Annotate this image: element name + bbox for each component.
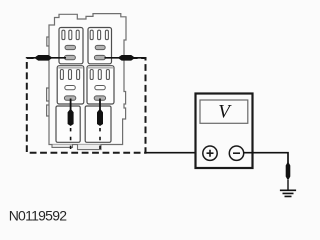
cavity mid-right [87, 66, 114, 104]
left test probe [36, 55, 53, 61]
terminal slots cavity mid-left [65, 86, 76, 90]
wire dashed box to voltmeter plus terminal [146, 152, 204, 154]
bottom-left test probe [68, 109, 74, 126]
cavity top-right [88, 28, 112, 64]
ground symbol [280, 190, 296, 196]
cavity bottom-right [85, 106, 111, 142]
dashed measurement box [27, 58, 146, 153]
cavity bottom-left [56, 106, 80, 142]
cavity mid-left lid line [58, 67, 82, 69]
housing bottom feet [52, 145, 101, 150]
pin slots cavity mid-right [90, 70, 109, 80]
right test probe [118, 55, 134, 61]
voltmeter minus terminal [229, 146, 243, 160]
pin slots cavity mid-left [60, 70, 79, 80]
housing left step detail [47, 37, 49, 116]
cavity top-left [59, 28, 83, 64]
svg-text:N0119592: N0119592 [9, 207, 68, 223]
pin slots cavity top-left [62, 30, 79, 39]
cavity mid-left [57, 66, 84, 104]
pin slots cavity top-right [90, 30, 108, 39]
bottom-right dashed lead [99, 128, 101, 153]
voltmeter display [200, 100, 248, 123]
wire minus terminal to ground [244, 153, 288, 163]
right test lead wire [105, 57, 145, 59]
left test lead wire [31, 57, 67, 59]
terminal slots cavity top-left [65, 45, 76, 49]
voltmeter plus terminal [203, 146, 217, 160]
bottom-left dashed lead [70, 128, 72, 153]
terminal slots cavity top-right [95, 45, 105, 49]
voltmeter body [196, 94, 253, 169]
cavity mid-right lid line [88, 67, 113, 69]
terminal slots cavity mid-right [95, 86, 106, 90]
bottom-right test probe [97, 109, 103, 126]
connector housing outline [49, 14, 126, 145]
bottom-left probe lead from terminal [70, 99, 72, 111]
ground probe [286, 162, 291, 181]
wire probe to ground symbol [287, 180, 289, 190]
bottom-right probe lead from terminal [99, 99, 101, 111]
